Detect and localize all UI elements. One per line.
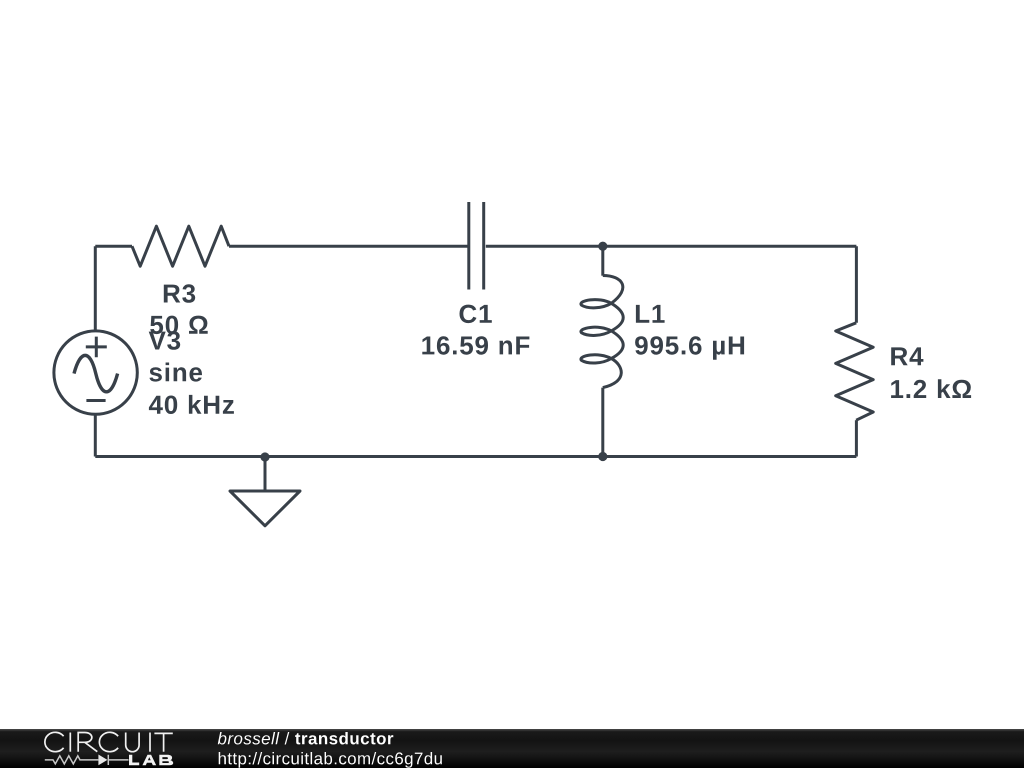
wire right vertical top to R4 — [855, 246, 858, 323]
wire right vertical R4 to bottom — [855, 420, 858, 456]
inductor L1 lead from node A — [601, 246, 604, 276]
node A junction dot — [598, 242, 607, 251]
logo LAB wordmark — [129, 755, 173, 766]
capacitor C1 plates — [469, 202, 484, 290]
logo letter T — [154, 733, 172, 751]
node ground junction dot — [260, 452, 269, 461]
node B junction dot (inductor bottom) — [598, 452, 607, 461]
label R4 value 1.2 kohm — [891, 379, 971, 398]
voltage source V3 circle — [54, 331, 137, 414]
label R4 name — [891, 347, 923, 365]
logo letter U — [126, 733, 139, 752]
label C1 value 16.59 nF — [422, 336, 529, 355]
label V3 frequency 40 kHz — [149, 395, 234, 414]
label V3 type sine — [149, 363, 202, 382]
ground triangle — [230, 491, 300, 526]
label L1 value 995.6 uH — [635, 336, 744, 360]
logo letter I1 — [69, 733, 71, 752]
footer attribution line: brossell / transductor — [218, 732, 394, 745]
wire bottom-left vertical — [94, 415, 97, 457]
logo diode bar and lead — [108, 755, 128, 765]
wire R3 to capacitor C1 — [229, 245, 468, 248]
logo letter R — [78, 733, 97, 752]
label V3 name — [149, 331, 181, 350]
ground stub — [264, 457, 267, 491]
wire bottom horizontal — [95, 455, 856, 458]
logo letter C1 — [45, 732, 64, 751]
wire C1 to node A — [486, 245, 602, 248]
resistor R4 — [836, 323, 874, 420]
footer url line — [219, 752, 442, 768]
logo letter C2 — [99, 732, 118, 751]
logo diode triangle — [98, 755, 107, 766]
inductor L1 lead to bottom wire — [601, 388, 604, 457]
resistor R3 — [132, 226, 229, 266]
logo resistor glyph — [45, 756, 99, 764]
inductor L1 coil — [581, 276, 623, 388]
wire top from corner to R3 — [95, 245, 132, 248]
label R3 name — [164, 284, 195, 303]
label C1 name — [460, 305, 492, 324]
voltage source V3 sine wave — [74, 355, 118, 391]
voltage source V3 plus sign — [86, 337, 107, 358]
label R3 value 50 ohm — [150, 316, 208, 335]
logo letter I2 — [149, 733, 151, 752]
wire node A to right corner — [602, 245, 856, 248]
voltage source V3 minus sign — [86, 399, 105, 402]
label L1 name — [636, 305, 665, 323]
wire top-left vertical — [94, 246, 97, 330]
